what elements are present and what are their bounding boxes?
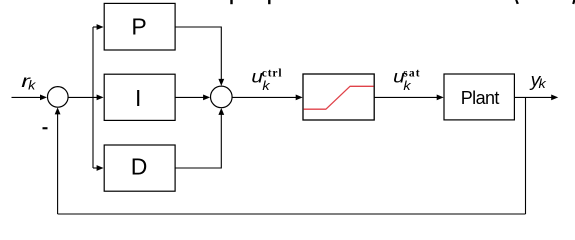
arrowhead from D into summing junction 2 (218, 108, 224, 115)
svg-text:Plant: Plant (461, 88, 500, 108)
saturation curve (red) (304, 86, 374, 109)
svg-text:k: k (28, 77, 37, 92)
arrowhead feedback into summing junction 1 (55, 107, 61, 114)
arrowhead output y_k (551, 95, 558, 101)
block P (104, 3, 175, 50)
wire: Plant output (514, 96, 552, 98)
svg-text:k: k (403, 78, 412, 93)
svg-text:D: D (131, 154, 148, 180)
minus sign at summing junction 1 (43, 127, 48, 129)
block I (104, 74, 175, 120)
block Plant (444, 74, 514, 120)
wire: summing junction 2 to saturation block (232, 96, 297, 98)
saturation block (303, 74, 374, 120)
wire: I output to summing junction 2 (175, 96, 204, 98)
cropped parenthesis fragment left (515, 0, 519, 4)
wire: P output to summing junction 2 (175, 27, 221, 81)
wire: feedback tap vertical (right) (525, 97, 527, 214)
arrowhead into summing junction 1 (40, 95, 47, 101)
arrowhead into D block (97, 165, 104, 171)
wire: branch to P block (93, 26, 98, 28)
arrowhead into I block (97, 95, 104, 101)
cropped text descender stub 1 (230, 0, 232, 4)
svg-text:I: I (135, 85, 141, 111)
wire: saturation block to Plant (374, 96, 438, 98)
wire: feedback bottom horizontal (58, 213, 526, 215)
wire: reference input (12, 96, 42, 98)
wire: summing junction 1 to I block (69, 96, 99, 98)
arrowhead into P block (97, 24, 104, 30)
arrowhead into saturation block (296, 95, 303, 101)
arrowhead from I into summing junction 2 (203, 95, 210, 101)
wire: feedback left vertical into summing junction 1 (57, 113, 59, 215)
arrowhead into Plant (437, 95, 444, 101)
wire: branch to D block (93, 167, 98, 169)
summing junction 2 (circle) (211, 86, 233, 108)
summing junction 1 (circle) (48, 87, 69, 108)
svg-text:P: P (131, 14, 146, 40)
arrowhead from P into summing junction 2 (218, 79, 224, 86)
cropped parenthesis fragment right (572, 0, 575, 4)
wire: branch vertical line (92, 27, 94, 168)
svg-text:k: k (262, 78, 271, 93)
wire: D output to summing junction 2 (175, 114, 221, 169)
svg-text:k: k (539, 76, 548, 91)
cropped text descender stub 2 (268, 0, 270, 4)
block D (104, 145, 175, 191)
